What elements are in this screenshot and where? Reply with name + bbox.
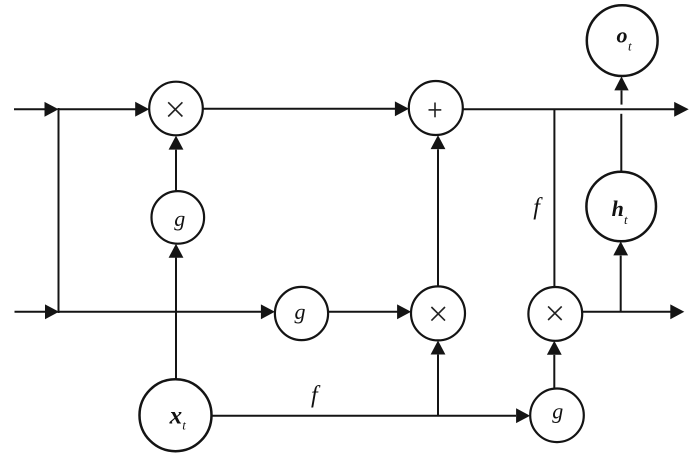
multiply symbol 1	[168, 102, 182, 116]
wire from multiply node to plus node	[203, 108, 397, 110]
wire g3 up to multiply node 3	[553, 355, 555, 389]
multiply node 3 circle	[528, 287, 582, 341]
multiply node 2 circle	[411, 286, 465, 340]
wire top line up toward o_t	[621, 91, 623, 105]
wire multiply node 3 to right output	[582, 311, 672, 313]
multiply node 1 circle	[149, 82, 203, 136]
svg-text:g: g	[552, 399, 563, 424]
svg-text:t: t	[182, 418, 186, 433]
arrowhead up into plus node	[431, 135, 446, 149]
arrowhead up into multiply node 1	[169, 136, 184, 150]
svg-text:h: h	[612, 196, 624, 221]
o_t node circle	[587, 5, 658, 76]
wire middle line to g node	[59, 311, 263, 313]
arrowhead into plus node	[395, 101, 409, 116]
wire x_t up to g1	[175, 258, 177, 380]
multiply symbol 3	[548, 306, 562, 320]
svg-text:o: o	[617, 22, 628, 47]
g node 1 circle	[152, 191, 205, 244]
svg-text:x: x	[169, 402, 183, 429]
svg-text:g: g	[174, 206, 185, 231]
plus symbol	[434, 103, 436, 118]
arrowhead up into g node 1	[169, 244, 184, 258]
arrowhead into left bus top	[45, 102, 59, 117]
wire multiply node 2 up to plus node	[437, 149, 439, 286]
wire bottom line x_t to g3	[212, 415, 517, 417]
wire f branch from top line down to multiply node 3	[553, 110, 555, 288]
svg-text:t: t	[628, 38, 632, 53]
x_t node circle	[140, 379, 212, 451]
arrowhead up into o_t	[614, 76, 628, 90]
wire from plus node to right output	[463, 108, 676, 110]
arrowhead into left bus middle	[45, 304, 59, 319]
svg-text:g: g	[295, 299, 306, 324]
wire middle-left input stub	[15, 311, 48, 313]
arrowhead right output top	[674, 102, 689, 117]
wire top line from left junction to multiply node	[59, 108, 138, 110]
wire left vertical bus	[58, 108, 60, 313]
wire g1 up to multiply node 1	[175, 150, 177, 192]
arrowhead up into multiply node 3	[547, 341, 562, 355]
plus node circle	[409, 81, 463, 135]
arrowhead up into h_t	[613, 241, 628, 255]
wire top-left input stub	[14, 108, 47, 110]
wire bottom line up to multiply node 2	[437, 355, 439, 416]
multiply symbol 2	[431, 307, 445, 321]
svg-text:t: t	[624, 212, 628, 227]
g node 3 circle	[530, 389, 584, 443]
arrowhead into g node 2	[261, 304, 275, 319]
arrowhead right output middle	[670, 304, 684, 319]
wire branch up to h_t	[620, 256, 622, 312]
arrowhead into g node 3	[516, 408, 530, 423]
g node 2 circle	[275, 287, 328, 340]
arrowhead up into multiply node 2	[431, 341, 446, 355]
arrowhead into multiply node 1	[135, 102, 149, 117]
wire g node to multiply node 2	[328, 311, 399, 313]
wire h_t up to top line	[620, 114, 622, 172]
h_t node circle	[586, 172, 656, 242]
arrowhead into multiply node 2 left	[397, 304, 411, 319]
